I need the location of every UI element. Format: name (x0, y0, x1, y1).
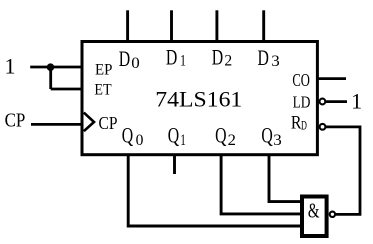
svg-text:EP: EP (95, 61, 112, 78)
svg-text:1: 1 (180, 53, 186, 70)
wire branch vertical (49, 67, 52, 89)
svg-text:74LS161: 74LS161 (155, 87, 242, 111)
IC U1 74LS161 body (82, 42, 317, 155)
svg-text:LD: LD (293, 93, 311, 112)
LD inversion bubble (320, 99, 326, 105)
svg-text:1: 1 (180, 132, 186, 149)
wire Q3 to gate (269, 155, 302, 202)
svg-text:D: D (301, 118, 307, 132)
pin D1 stub wire (170, 10, 173, 41)
svg-text:Q: Q (168, 122, 179, 147)
wire RD feedback from NAND output (326, 127, 360, 214)
wire CP input (31, 123, 82, 126)
pin D3 stub wire (262, 10, 265, 41)
svg-text:1: 1 (351, 89, 362, 114)
svg-text:2: 2 (224, 53, 232, 70)
NAND output bubble (330, 212, 335, 217)
wire Q2 to gate (221, 155, 302, 214)
wire Q0 to gate (128, 155, 302, 226)
pin D0 stub wire (126, 10, 129, 41)
label Q0 (122, 122, 144, 148)
junction dot node (47, 63, 55, 71)
svg-text:D: D (212, 45, 223, 70)
wire EP input (30, 66, 82, 69)
wire ET input (51, 88, 82, 91)
svg-text:&: & (308, 199, 320, 223)
svg-text:D: D (258, 45, 269, 70)
pin D2 stub wire (215, 10, 218, 41)
label D0 (119, 46, 140, 72)
svg-text:3: 3 (271, 53, 280, 70)
label Q1 (168, 122, 186, 148)
label D2 (212, 45, 232, 70)
svg-text:0: 0 (131, 55, 140, 72)
svg-text:D: D (119, 46, 130, 71)
svg-text:0: 0 (136, 132, 144, 149)
label D3 (258, 45, 281, 70)
label D1 (166, 45, 186, 70)
svg-text:Q: Q (215, 122, 226, 147)
svg-text:2: 2 (228, 132, 236, 149)
label Q2 (215, 122, 236, 148)
label RD (291, 113, 307, 134)
pin Q1 stub wire (173, 155, 176, 174)
svg-text:1: 1 (5, 54, 16, 79)
wire CO output (318, 77, 347, 80)
svg-text:Q: Q (122, 122, 133, 147)
svg-text:CO: CO (292, 70, 310, 90)
clock triangle symbol (84, 113, 94, 132)
svg-text:ET: ET (94, 82, 111, 99)
svg-text:D: D (166, 45, 177, 70)
RD inversion bubble (320, 124, 326, 130)
svg-text:Q: Q (261, 122, 272, 147)
svg-text:CP: CP (5, 110, 26, 131)
NAND gate U2 body (302, 197, 327, 237)
label Q3 (261, 122, 282, 148)
svg-text:3: 3 (273, 132, 282, 149)
wire LD input (326, 100, 347, 103)
svg-text:CP: CP (99, 113, 118, 133)
